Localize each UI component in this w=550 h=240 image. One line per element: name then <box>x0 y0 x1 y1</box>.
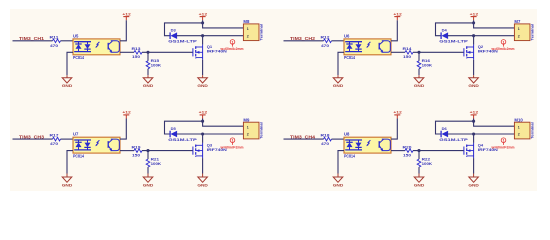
svg-text:2: 2 <box>518 34 520 38</box>
diode D3 GS1M-LTP <box>168 28 197 44</box>
ground R16 <box>414 75 425 88</box>
svg-text:100K: 100K <box>151 63 162 68</box>
svg-text:1: 1 <box>502 40 504 44</box>
svg-text:GND: GND <box>62 182 73 187</box>
transistor Q2 IRF740N <box>464 44 498 60</box>
optocoupler U7 PC814 <box>73 132 120 159</box>
wire U7 pin4 to +12 <box>120 119 126 140</box>
svg-text:PC814: PC814 <box>73 153 85 158</box>
wire U7 pin2 to GND <box>67 151 73 174</box>
wire drain node to M8 pin2 <box>203 35 244 37</box>
svg-text:PC814: PC814 <box>344 153 356 158</box>
svg-text:R18: R18 <box>321 133 331 138</box>
node junction R19/R21 <box>146 149 149 152</box>
svg-text:GND: GND <box>197 83 208 88</box>
node junction +12/D6 <box>472 120 475 123</box>
svg-text:D6: D6 <box>442 126 448 131</box>
svg-text:1: 1 <box>247 27 249 31</box>
wire U5 pin2 to GND <box>67 52 73 75</box>
svg-text:+12: +12 <box>470 110 479 115</box>
node junction R14/R16 <box>417 51 420 54</box>
power +12 D4 rail <box>470 11 479 20</box>
power +12 U5 collector <box>122 11 131 20</box>
svg-text:U8: U8 <box>344 132 350 137</box>
wire D3 anode to drain node <box>177 35 203 37</box>
wire R11 to U5 pin1 <box>61 40 74 42</box>
connector M8 Terminal <box>243 19 263 40</box>
net label TIM3_CH3 <box>19 135 45 140</box>
svg-text:w=60mil=2mm: w=60mil=2mm <box>491 46 515 51</box>
resistor R11 470 <box>50 34 61 48</box>
svg-text:R13: R13 <box>132 46 142 51</box>
svg-text:R20: R20 <box>403 144 413 149</box>
ground U6 input <box>333 75 344 88</box>
ground Q1 source <box>197 75 208 88</box>
resistor R13 150 <box>132 46 143 59</box>
svg-text:470: 470 <box>321 141 330 146</box>
svg-text:R17: R17 <box>50 133 60 138</box>
svg-text:150: 150 <box>403 153 412 158</box>
node junction +12/D3 <box>201 21 204 24</box>
wire drain node to M10 pin2 <box>474 133 515 135</box>
svg-text:R11: R11 <box>50 34 60 39</box>
annotation text w=60mil=2mm <box>220 144 244 149</box>
svg-text:Terminal: Terminal <box>529 24 534 41</box>
wire +12 to node <box>202 119 204 122</box>
connector M9 Terminal <box>243 118 263 139</box>
wire drain node to M9 pin2 <box>203 133 244 135</box>
svg-text:470: 470 <box>50 141 59 146</box>
ground R15 <box>143 75 154 88</box>
wire +12 to node <box>202 20 204 23</box>
node junction R20/R22 <box>417 149 420 152</box>
svg-text:w=60mil=2mm: w=60mil=2mm <box>491 144 515 149</box>
svg-text:PC814: PC814 <box>73 55 85 60</box>
svg-text:100K: 100K <box>151 161 162 166</box>
svg-text:+12: +12 <box>393 110 402 115</box>
svg-text:GND: GND <box>333 83 344 88</box>
svg-text:2: 2 <box>247 133 249 137</box>
annotation text w=60mil=2mm <box>491 144 515 149</box>
wire R18 to U8 pin1 <box>332 138 345 140</box>
svg-text:+12: +12 <box>122 110 131 115</box>
svg-text:+12: +12 <box>122 11 131 16</box>
svg-text:GND: GND <box>468 182 479 187</box>
wire +12 to node <box>473 20 475 23</box>
annotation marker 1 <box>230 138 235 145</box>
wire R19 to Q3 gate <box>142 150 193 152</box>
power +12 U7 collector <box>122 110 131 119</box>
svg-text:D4: D4 <box>442 28 448 33</box>
svg-text:U5: U5 <box>73 33 79 38</box>
transistor Q3 IRF740N <box>193 143 227 159</box>
node junction drain <box>201 132 204 135</box>
node junction +12/D5 <box>201 120 204 123</box>
wire Q3 source to GND <box>202 158 204 173</box>
ground R22 <box>414 174 425 188</box>
wire R17 to U7 pin1 <box>61 138 74 140</box>
svg-text:U7: U7 <box>73 132 79 137</box>
resistor R21 100K <box>146 151 161 174</box>
svg-text:GND: GND <box>468 83 479 88</box>
ground U5 input <box>62 75 73 88</box>
optocoupler U5 PC814 <box>73 33 120 60</box>
wire U7 pin3 to R19 <box>120 150 134 152</box>
wire Q1 source to GND <box>202 60 204 75</box>
svg-text:w=60mil=2mm: w=60mil=2mm <box>220 46 244 51</box>
svg-text:470: 470 <box>50 43 59 48</box>
svg-text:GND: GND <box>143 83 154 88</box>
wire U6 pin3 to R14 <box>391 51 405 53</box>
wire +12 to node <box>473 119 475 122</box>
ground Q2 source <box>468 75 479 88</box>
svg-text:1: 1 <box>247 125 249 129</box>
wire R20 to Q4 gate <box>413 150 464 152</box>
diode D6 GS1M-LTP <box>439 126 468 142</box>
svg-text:M8: M8 <box>243 19 250 24</box>
wire +12 to M9 pin1 <box>203 121 244 126</box>
wire D6 anode to drain node <box>448 133 474 135</box>
wire drain node to M7 pin2 <box>474 35 515 37</box>
svg-text:GS1M-LTP: GS1M-LTP <box>439 39 468 44</box>
wire Q4 source to GND <box>473 158 475 173</box>
svg-text:100K: 100K <box>422 63 433 68</box>
ground U8 input <box>333 174 344 188</box>
svg-text:PC814: PC814 <box>344 55 356 60</box>
wire D3 cathode loop <box>165 23 203 36</box>
svg-text:M7: M7 <box>514 19 521 24</box>
wire +12 to M7 pin1 <box>474 23 515 28</box>
svg-text:1: 1 <box>518 27 520 31</box>
wire +12 to M10 pin1 <box>474 121 515 126</box>
wire TIM3_CH3 to R17 <box>13 138 53 140</box>
power +12 U8 collector <box>393 110 402 119</box>
power +12 D6 rail <box>470 110 479 119</box>
annotation marker 1 <box>501 40 506 47</box>
svg-text:2: 2 <box>518 133 520 137</box>
svg-text:+12: +12 <box>393 11 402 16</box>
svg-text:GND: GND <box>414 83 425 88</box>
diode D4 GS1M-LTP <box>439 28 468 44</box>
svg-text:+12: +12 <box>470 11 479 16</box>
wire TIM3_CH2 to R12 <box>284 40 324 42</box>
annotation marker 1 <box>230 40 235 47</box>
resistor R17 470 <box>50 133 61 147</box>
net label TIM3_CH2 <box>290 36 316 41</box>
optocoupler U6 PC814 <box>344 33 391 60</box>
wire U5 pin4 to +12 <box>120 20 126 41</box>
svg-text:1: 1 <box>231 40 233 44</box>
svg-text:GND: GND <box>143 182 154 187</box>
wire D5 cathode loop <box>165 121 203 134</box>
resistor R22 100K <box>417 151 432 174</box>
node junction drain <box>201 34 204 37</box>
wire U6 pin2 to GND <box>338 52 344 75</box>
wire U8 pin3 to R20 <box>391 150 405 152</box>
svg-text:1: 1 <box>502 139 504 143</box>
svg-text:R12: R12 <box>321 34 331 39</box>
svg-text:GND: GND <box>333 182 344 187</box>
transistor Q1 IRF740N <box>193 44 227 60</box>
wire TIM3_CH4 to R18 <box>284 138 324 140</box>
svg-text:R14: R14 <box>403 46 413 51</box>
wire U8 pin4 to +12 <box>391 119 397 140</box>
wire D6 cathode loop <box>436 121 474 134</box>
svg-text:M10: M10 <box>514 118 523 123</box>
svg-text:100K: 100K <box>422 161 433 166</box>
ground Q4 source <box>468 174 479 188</box>
ground Q3 source <box>197 174 208 188</box>
wire U8 pin2 to GND <box>338 151 344 174</box>
wire drain node to Q2 <box>473 36 475 45</box>
svg-text:D3: D3 <box>171 28 177 33</box>
svg-text:150: 150 <box>403 54 412 59</box>
wire Q2 source to GND <box>473 60 475 75</box>
wire drain node to Q3 <box>202 134 204 143</box>
svg-text:150: 150 <box>132 153 141 158</box>
wire U5 pin3 to R13 <box>120 51 134 53</box>
node junction drain <box>472 132 475 135</box>
ground R21 <box>143 174 154 188</box>
resistor R16 100K <box>417 52 432 75</box>
resistor R12 470 <box>321 34 332 48</box>
power +12 D5 rail <box>199 110 208 119</box>
wire D5 anode to drain node <box>177 133 203 135</box>
svg-text:GS1M-LTP: GS1M-LTP <box>168 137 197 142</box>
wire +12 to M8 pin1 <box>203 23 244 28</box>
svg-text:150: 150 <box>132 54 141 59</box>
svg-text:2: 2 <box>247 34 249 38</box>
transistor Q4 IRF740N <box>464 143 498 159</box>
diode D5 GS1M-LTP <box>168 126 197 142</box>
node junction R13/R15 <box>146 51 149 54</box>
wire D4 anode to drain node <box>448 35 474 37</box>
svg-text:M9: M9 <box>243 118 250 123</box>
wire R14 to Q2 gate <box>413 51 464 53</box>
net label TIM3_CH1 <box>19 36 45 41</box>
wire drain node to Q4 <box>473 134 475 143</box>
svg-text:U6: U6 <box>344 33 350 38</box>
svg-text:1: 1 <box>518 125 520 129</box>
wire D4 cathode loop <box>436 23 474 36</box>
power +12 D3 rail <box>199 11 208 20</box>
resistor R15 100K <box>146 52 161 75</box>
svg-text:Terminal: Terminal <box>258 122 263 139</box>
svg-text:1: 1 <box>231 139 233 143</box>
svg-text:+12: +12 <box>199 11 208 16</box>
svg-text:R19: R19 <box>132 144 142 149</box>
wire U6 pin4 to +12 <box>391 20 397 41</box>
annotation marker 1 <box>501 138 506 145</box>
wire R13 to Q1 gate <box>142 51 193 53</box>
node junction drain <box>472 34 475 37</box>
svg-text:470: 470 <box>321 43 330 48</box>
wire drain node to Q1 <box>202 36 204 45</box>
connector M7 Terminal <box>514 19 534 40</box>
node junction +12/D4 <box>472 21 475 24</box>
svg-text:Terminal: Terminal <box>529 122 534 139</box>
connector M10 Terminal <box>514 118 534 139</box>
optocoupler U8 PC814 <box>344 132 391 159</box>
svg-text:GND: GND <box>414 182 425 187</box>
power +12 U6 collector <box>393 11 402 20</box>
resistor R18 470 <box>321 133 332 147</box>
resistor R19 150 <box>132 144 143 157</box>
svg-text:GND: GND <box>197 182 208 187</box>
ground U7 input <box>62 174 73 188</box>
annotation text w=60mil=2mm <box>491 46 515 51</box>
svg-text:Terminal: Terminal <box>258 24 263 41</box>
svg-text:+12: +12 <box>199 110 208 115</box>
resistor R14 150 <box>403 46 414 59</box>
wire R12 to U6 pin1 <box>332 40 345 42</box>
svg-text:GS1M-LTP: GS1M-LTP <box>168 39 197 44</box>
annotation text w=60mil=2mm <box>220 46 244 51</box>
net label TIM3_CH4 <box>290 135 316 140</box>
svg-text:D5: D5 <box>171 126 177 131</box>
resistor R20 150 <box>403 144 414 157</box>
wire TIM3_CH1 to R11 <box>13 40 53 42</box>
svg-text:GS1M-LTP: GS1M-LTP <box>439 137 468 142</box>
svg-text:GND: GND <box>62 83 73 88</box>
svg-text:w=60mil=2mm: w=60mil=2mm <box>220 144 244 149</box>
